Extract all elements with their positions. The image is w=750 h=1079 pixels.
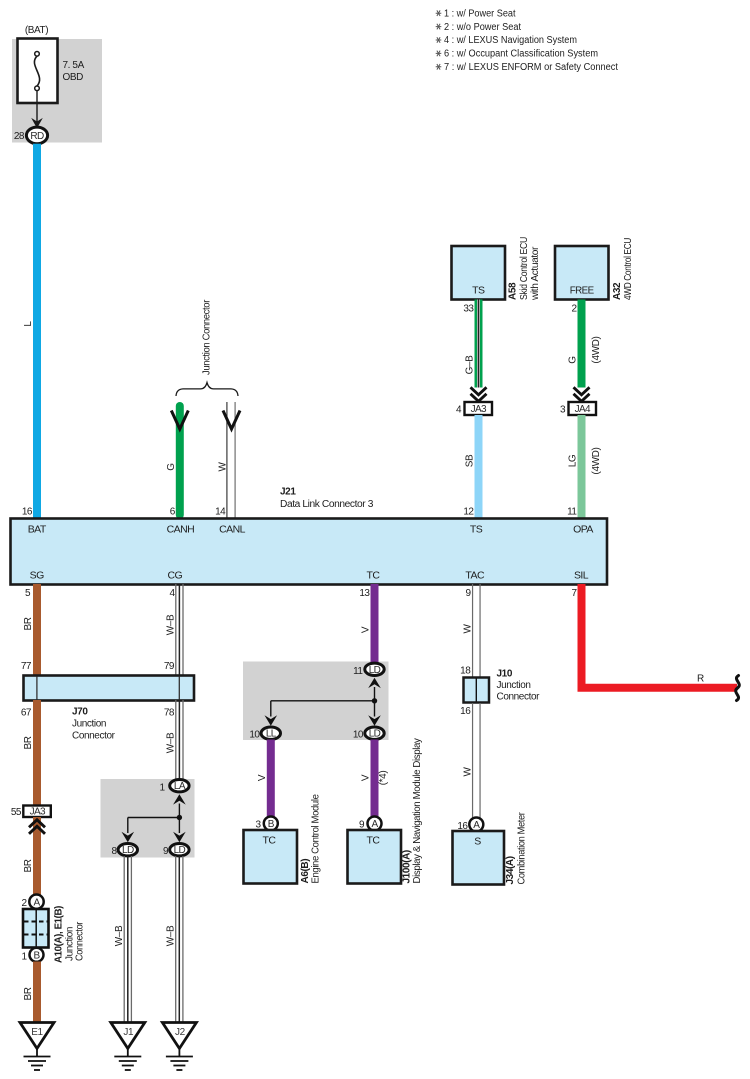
junction connector shading (middle, around LD/LL terminals) <box>243 662 389 741</box>
svg-text:11: 11 <box>567 507 577 518</box>
svg-text:SB: SB <box>465 454 476 467</box>
svg-text:Junction: Junction <box>497 680 531 691</box>
svg-text:V: V <box>361 626 372 633</box>
junction connector label and brace <box>176 299 238 396</box>
J21 bottom pin name SIL <box>574 570 589 582</box>
J21 top pin name CANL <box>219 524 246 536</box>
terminal RD pin 28 <box>14 127 48 144</box>
svg-text:B: B <box>268 819 275 830</box>
wire W (J10 pin 16 to terminal A pin 16) <box>457 703 480 832</box>
svg-text:67: 67 <box>21 708 32 719</box>
svg-text:LD: LD <box>369 665 381 676</box>
svg-text:R: R <box>697 674 704 685</box>
wire V TC pin 13 (J21 to LD11) <box>359 584 378 664</box>
wire R SIL pin 7 <box>571 584 737 688</box>
svg-text:Connector: Connector <box>72 731 116 742</box>
wire G-B (A58 to JA3) <box>465 300 483 388</box>
J21 top pin name TS <box>470 524 483 536</box>
internal wire (LD11 to junction dot, branches to LL/LD10) <box>265 678 381 726</box>
terminal LL pin 10 <box>249 727 280 741</box>
svg-text:SG: SG <box>30 570 44 582</box>
svg-text:4: 4 <box>169 588 175 599</box>
note *4 <box>436 35 577 46</box>
meter J34(A) Combination Meter <box>453 812 528 885</box>
svg-text:BR: BR <box>23 617 34 630</box>
svg-text:W: W <box>462 767 473 777</box>
junction connector J10 <box>464 669 541 703</box>
svg-text:2: 2 <box>21 898 27 909</box>
svg-text:(4WD): (4WD) <box>591 336 602 363</box>
svg-text:(4WD): (4WD) <box>591 447 602 474</box>
svg-text:W: W <box>462 624 473 634</box>
svg-text:9: 9 <box>465 588 471 599</box>
svg-text:12: 12 <box>463 507 474 518</box>
svg-text:Junction: Junction <box>72 719 106 730</box>
fuse block background shading <box>12 39 102 143</box>
terminal LD pin 10 <box>353 727 384 741</box>
terminal LD pin 8 <box>111 844 137 858</box>
svg-text:W–B: W–B <box>166 925 177 946</box>
svg-text:SIL: SIL <box>574 570 589 582</box>
svg-text:6: 6 <box>170 507 176 518</box>
svg-text:with Actuator: with Actuator <box>530 246 541 301</box>
svg-text:JA3: JA3 <box>30 807 46 818</box>
wire G (4WD) (A32 to JA4) <box>568 300 603 388</box>
svg-text:CANL: CANL <box>219 524 246 536</box>
svg-text:Display & Navigation Module Di: Display & Navigation Module Display <box>412 738 423 883</box>
note *2 <box>436 22 521 33</box>
svg-text:RD: RD <box>30 131 44 142</box>
connector JA3 pin 4 <box>456 387 492 415</box>
svg-text:FREE: FREE <box>570 285 594 297</box>
svg-text:LG: LG <box>568 454 579 467</box>
svg-text:A: A <box>371 819 378 830</box>
terminal LA pin 1 <box>159 780 189 794</box>
svg-text:TS: TS <box>472 285 485 297</box>
svg-text:JA4: JA4 <box>575 404 591 415</box>
svg-text:13: 13 <box>359 588 370 599</box>
terminal A pin 16 <box>469 818 483 832</box>
ground J1 <box>111 1023 145 1071</box>
wire W-B (LD8 to ground J1) <box>114 856 132 1023</box>
svg-text:16: 16 <box>460 706 471 717</box>
svg-text:18: 18 <box>460 666 471 677</box>
svg-text:Skid Control ECU: Skid Control ECU <box>519 237 530 300</box>
svg-text:S: S <box>474 836 481 848</box>
svg-text:LD: LD <box>122 845 134 856</box>
svg-text:77: 77 <box>21 661 32 672</box>
ground J2 <box>162 1023 196 1071</box>
svg-text:J1: J1 <box>123 1027 134 1038</box>
terminal A pin 9 <box>368 817 382 831</box>
svg-text:33: 33 <box>463 304 474 315</box>
wire W-B (J70 pin 78 to terminal LA) <box>164 700 184 780</box>
J21 top pin name OPA <box>573 524 593 536</box>
svg-text:CANH: CANH <box>167 524 195 536</box>
svg-text:14: 14 <box>215 507 226 518</box>
J21 bottom pin name CG <box>167 570 182 582</box>
wire W-B (LD9 to ground J2) <box>166 856 184 1023</box>
J21 bottom pin name TC <box>367 570 381 582</box>
svg-text:1 : w/ Power Seat: 1 : w/ Power Seat <box>444 8 516 19</box>
note *6 <box>436 49 598 60</box>
wire G CANH pin 6 <box>166 402 188 519</box>
wire break symbol <box>736 676 740 701</box>
wire BR (terminal B to ground E1) <box>23 962 41 1024</box>
svg-text:OPA: OPA <box>573 524 593 536</box>
svg-text:J34(A): J34(A) <box>505 856 516 884</box>
svg-text:Connector: Connector <box>75 921 86 961</box>
terminal B pin 1 <box>21 948 43 963</box>
svg-text:A10(A), E1(B): A10(A), E1(B) <box>54 906 65 963</box>
svg-text:A: A <box>473 820 480 831</box>
svg-text:7. 5A: 7. 5A <box>63 60 85 71</box>
svg-text:A6(B): A6(B) <box>300 859 311 884</box>
wire V (LL to terminal B pin 3) <box>255 740 274 831</box>
svg-text:Combination Meter: Combination Meter <box>517 812 528 885</box>
svg-text:G: G <box>568 356 579 364</box>
junction connector shading (left, around LA/LD terminals) <box>101 779 195 858</box>
svg-text:(*4): (*4) <box>378 771 389 786</box>
svg-text:A32: A32 <box>612 282 623 300</box>
ECU A58 Skid Control ECU with Actuator <box>452 237 542 315</box>
svg-text:A: A <box>33 897 40 908</box>
svg-text:OBD: OBD <box>63 72 84 83</box>
svg-text:6 : w/ Occupant Classification: 6 : w/ Occupant Classification System <box>444 49 598 60</box>
svg-text:CG: CG <box>167 570 182 582</box>
wire BR (J70 pin 67 to JA3 pin 55) <box>21 700 41 806</box>
svg-text:LL: LL <box>266 729 277 740</box>
svg-text:JA3: JA3 <box>471 404 487 415</box>
svg-text:G: G <box>166 463 177 471</box>
J21 top pin name BAT <box>28 524 47 536</box>
svg-text:W–B: W–B <box>114 925 125 946</box>
svg-text:55: 55 <box>11 807 22 818</box>
svg-text:BR: BR <box>23 987 34 1000</box>
wire W CANL pin 14 <box>215 402 240 519</box>
svg-text:LD: LD <box>174 845 186 856</box>
terminal LD pin 9 <box>163 844 189 858</box>
svg-text:1: 1 <box>21 952 27 963</box>
svg-text:B: B <box>33 951 40 962</box>
svg-text:J70: J70 <box>72 707 88 718</box>
note *7 <box>436 62 618 73</box>
svg-text:BR: BR <box>23 859 34 872</box>
note *1 <box>436 8 516 19</box>
svg-text:10: 10 <box>353 730 364 741</box>
ECU A32 4WD Control ECU <box>555 238 634 315</box>
svg-text:J21: J21 <box>280 487 296 498</box>
svg-text:G–B: G–B <box>465 355 476 375</box>
wire BR SG pin 5 (J21 to J70) <box>21 584 41 676</box>
svg-text:7: 7 <box>571 588 577 599</box>
terminal A pin 2 <box>21 895 43 910</box>
connector JA4 pin 3 <box>560 387 596 415</box>
svg-text:J10: J10 <box>497 669 513 680</box>
svg-text:TC: TC <box>367 835 381 847</box>
svg-text:11: 11 <box>353 666 363 677</box>
svg-text:3: 3 <box>560 405 566 416</box>
connector J21 Data Link Connector 3 <box>11 487 608 585</box>
svg-text:16: 16 <box>22 507 33 518</box>
svg-text:W: W <box>218 462 229 472</box>
wire L (BAT) <box>22 144 41 519</box>
svg-text:2 : w/o Power Seat: 2 : w/o Power Seat <box>444 22 521 33</box>
wire BR (JA3 to terminal A) <box>23 817 45 895</box>
svg-text:4WD Control ECU: 4WD Control ECU <box>623 238 634 300</box>
svg-text:Connector: Connector <box>497 692 541 703</box>
svg-text:W–B: W–B <box>166 732 177 753</box>
svg-text:79: 79 <box>164 661 175 672</box>
svg-text:Junction Connector: Junction Connector <box>202 299 213 375</box>
svg-text:V: V <box>257 774 268 781</box>
svg-text:TS: TS <box>470 524 483 536</box>
ground E1 <box>20 1023 54 1071</box>
svg-text:E1: E1 <box>31 1027 43 1038</box>
svg-text:W–B: W–B <box>166 614 177 635</box>
svg-text:TC: TC <box>263 835 277 847</box>
svg-text:5: 5 <box>25 588 31 599</box>
svg-text:LA: LA <box>174 781 186 792</box>
svg-text:4 : w/ LEXUS Navigation System: 4 : w/ LEXUS Navigation System <box>444 35 577 46</box>
svg-text:Data Link Connector 3: Data Link Connector 3 <box>280 499 374 510</box>
J21 bottom pin name TAC <box>465 570 485 582</box>
wire V (*4) (LD10 to terminal A pin 9) <box>359 740 389 831</box>
wire fuse to terminal RD <box>31 91 43 129</box>
terminal LD pin 11 <box>353 663 384 677</box>
svg-text:4: 4 <box>456 405 462 416</box>
J21 bottom pin name SG <box>30 570 44 582</box>
J21 top pin name CANH <box>167 524 195 536</box>
wire W-B CG pin 4 (J21 to J70) <box>164 584 184 676</box>
svg-text:Engine Control Module: Engine Control Module <box>311 794 322 884</box>
svg-text:2: 2 <box>571 304 577 315</box>
svg-text:7 : w/ LEXUS ENFORM or Safety: 7 : w/ LEXUS ENFORM or Safety Connect <box>444 62 618 73</box>
fuse 7.5A OBD <box>18 25 85 103</box>
svg-text:10: 10 <box>249 730 260 741</box>
internal wire (LA to junction dot, branches to LD8/LD9) <box>122 794 186 842</box>
svg-text:J100(A): J100(A) <box>402 850 413 883</box>
svg-text:BAT: BAT <box>28 524 47 536</box>
svg-text:(BAT): (BAT) <box>25 25 48 36</box>
svg-text:28: 28 <box>14 131 25 142</box>
svg-text:TC: TC <box>367 570 381 582</box>
terminal B pin 3 <box>264 817 278 831</box>
svg-text:J2: J2 <box>175 1027 186 1038</box>
svg-text:78: 78 <box>164 708 175 719</box>
svg-text:TAC: TAC <box>465 570 485 582</box>
svg-text:V: V <box>361 774 372 781</box>
junction connector J70 <box>24 676 195 742</box>
svg-text:LD: LD <box>369 729 381 740</box>
ECU A6(B) Engine Control Module <box>244 794 322 884</box>
svg-text:L: L <box>23 321 34 327</box>
wire SB (JA3 to pin 12 TS) <box>463 415 482 519</box>
connector JA3 pin 55 <box>11 806 51 819</box>
module J100(A) Display and Navigation Module Display <box>348 738 424 883</box>
svg-text:A58: A58 <box>508 282 519 300</box>
svg-text:BR: BR <box>23 736 34 749</box>
wire W TAC pin 9 (J21 to J10) <box>460 584 480 678</box>
junction connector A10(A), E1(B) <box>23 906 86 963</box>
wire LG (4WD) (JA4 to pin 11 OPA) <box>567 415 602 519</box>
